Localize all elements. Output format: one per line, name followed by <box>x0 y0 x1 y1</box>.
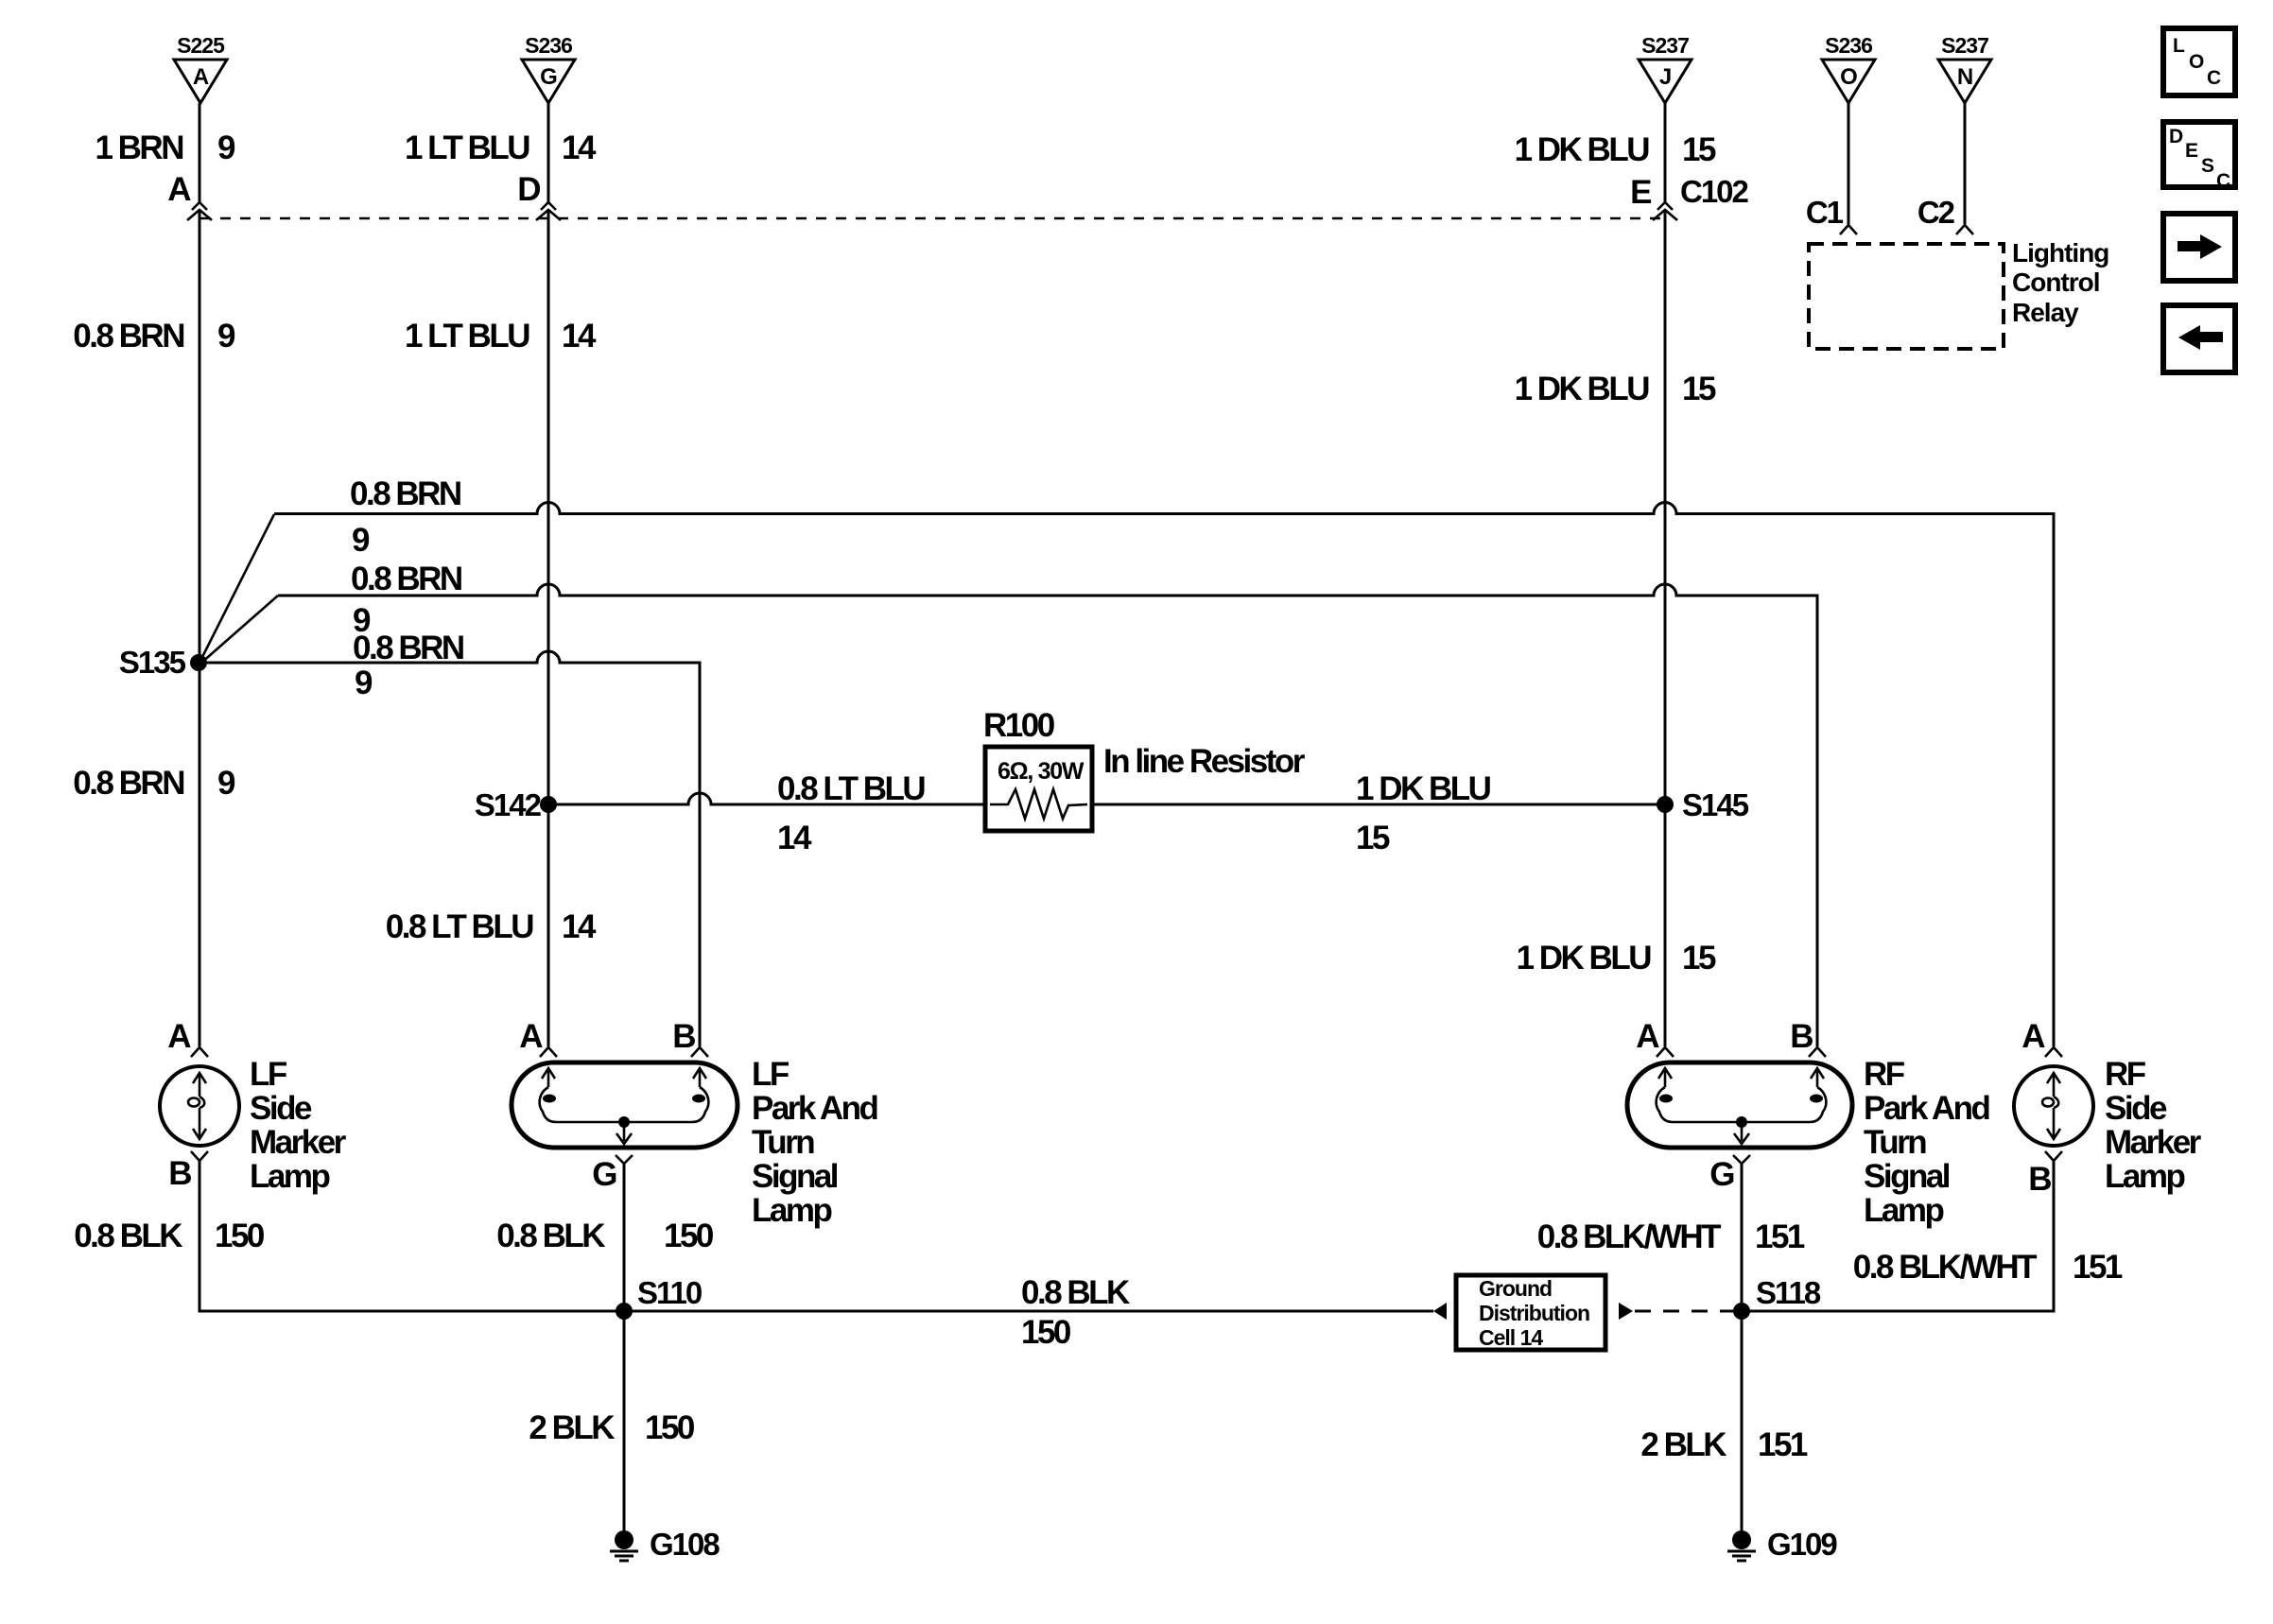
left filament <box>1664 1071 1667 1087</box>
pin B terminal fork <box>191 1151 208 1161</box>
svg-text:Marker: Marker <box>250 1124 347 1161</box>
right filament <box>699 1071 702 1087</box>
svg-text:0.8 BRN: 0.8 BRN <box>350 475 460 512</box>
pin B terminal fork <box>1809 1047 1826 1057</box>
svg-text:1 LT BLU: 1 LT BLU <box>405 130 529 166</box>
pin G terminal fork <box>1733 1155 1750 1164</box>
svg-text:G109: G109 <box>1767 1527 1837 1562</box>
svg-text:15: 15 <box>1356 820 1390 856</box>
svg-text:Ground: Ground <box>1479 1276 1552 1301</box>
C1 terminal fork <box>1840 225 1857 234</box>
wire S118 to RF side marker B <box>1742 1161 2054 1311</box>
svg-text:Side: Side <box>250 1090 312 1127</box>
svg-text:6Ω, 30W: 6Ω, 30W <box>998 758 1084 785</box>
svg-text:S118: S118 <box>1756 1275 1821 1310</box>
pin A terminal fork <box>1657 1047 1674 1057</box>
common junction and ground arrow <box>1736 1116 1747 1128</box>
svg-text:S236: S236 <box>1825 33 1872 58</box>
svg-text:150: 150 <box>664 1218 714 1254</box>
connector E at C102 line <box>1657 202 1673 210</box>
ground G108 <box>610 1527 720 1562</box>
svg-text:15: 15 <box>1682 940 1716 976</box>
wire S142 to R100 (0.8 LT BLU 14) with hop over branch-3 drop <box>548 793 985 804</box>
svg-text:151: 151 <box>2073 1249 2123 1286</box>
C2 terminal fork <box>1956 225 1973 234</box>
svg-text:Control: Control <box>2012 268 2100 297</box>
svg-text:C: C <box>2207 67 2221 89</box>
svg-text:2 BLK: 2 BLK <box>1640 1426 1726 1463</box>
svg-text:1 BRN: 1 BRN <box>95 130 182 166</box>
svg-text:Marker: Marker <box>2105 1124 2202 1161</box>
svg-text:S145: S145 <box>1682 787 1749 822</box>
bulb circle <box>2014 1066 2093 1146</box>
svg-text:LF: LF <box>250 1056 287 1093</box>
wire R100 to S145 (1 DK BLU 15) <box>1092 803 1665 806</box>
svg-text:Turn: Turn <box>1864 1124 1926 1161</box>
svg-text:Lamp: Lamp <box>1864 1192 1943 1229</box>
svg-text:0.8 LT BLU: 0.8 LT BLU <box>386 908 533 945</box>
pin G terminal fork <box>616 1155 633 1164</box>
legend forward arrow box <box>2163 214 2235 281</box>
svg-text:15: 15 <box>1682 371 1716 407</box>
svg-text:9: 9 <box>217 318 235 354</box>
svg-text:B: B <box>2028 1161 2051 1198</box>
svg-text:A: A <box>193 64 209 90</box>
svg-text:1 DK BLU: 1 DK BLU <box>1356 770 1491 807</box>
connector A at C102 line (chevron + arrow) <box>192 202 207 210</box>
svg-text:R100: R100 <box>983 707 1055 744</box>
svg-text:0.8 BLK: 0.8 BLK <box>1021 1274 1130 1311</box>
resistor R100 In line Resistor <box>983 707 1306 831</box>
svg-text:1 DK BLU: 1 DK BLU <box>1515 371 1650 407</box>
svg-text:J: J <box>1659 64 1671 90</box>
pin A terminal fork <box>2045 1047 2062 1057</box>
pin B terminal fork <box>2045 1151 2062 1161</box>
svg-text:1 LT BLU: 1 LT BLU <box>405 318 529 354</box>
right filament <box>1816 1071 1819 1087</box>
left filament <box>547 1071 550 1087</box>
relay K: Lighting Control Relay dashed box <box>1809 244 2004 349</box>
dashed wire ground distribution to S118 <box>1635 1310 1736 1313</box>
svg-text:Lamp: Lamp <box>2105 1158 2184 1195</box>
svg-text:E: E <box>2185 140 2198 162</box>
svg-text:1 DK BLU: 1 DK BLU <box>1515 131 1650 168</box>
svg-text:9: 9 <box>217 765 235 802</box>
splice S135 node <box>190 654 207 671</box>
lamp E1: LF Side Marker Lamp <box>160 1018 347 1195</box>
wire O to relay pin C1 <box>1848 103 1850 224</box>
common junction and ground arrow <box>618 1116 630 1128</box>
svg-text:B: B <box>672 1018 695 1055</box>
wire below connector D down to LF park lamp pin A <box>547 210 550 1046</box>
svg-text:Park And: Park And <box>752 1090 877 1127</box>
svg-text:9: 9 <box>355 665 373 701</box>
svg-text:0.8 LT BLU: 0.8 LT BLU <box>777 770 925 807</box>
svg-text:Cell 14: Cell 14 <box>1479 1325 1543 1350</box>
svg-text:14: 14 <box>562 908 597 945</box>
lamp E2: LF Park And Turn Signal Lamp <box>512 1018 877 1229</box>
svg-text:N: N <box>1957 64 1972 90</box>
wire below connector E down to RF park lamp pin A <box>1664 210 1667 1046</box>
svg-text:LF: LF <box>752 1056 789 1093</box>
svg-text:S236: S236 <box>525 33 572 58</box>
svg-text:0.8 BLK: 0.8 BLK <box>74 1218 182 1254</box>
svg-text:G108: G108 <box>650 1527 720 1562</box>
svg-text:2 BLK: 2 BLK <box>529 1409 615 1446</box>
svg-text:S135: S135 <box>119 645 186 680</box>
splice triangle S237 (J) <box>1639 33 1692 103</box>
svg-text:O: O <box>2189 51 2204 73</box>
svg-text:0.8 BRN: 0.8 BRN <box>73 318 183 354</box>
svg-text:S237: S237 <box>1641 33 1689 58</box>
svg-text:A: A <box>167 171 191 208</box>
pin B terminal fork <box>691 1047 708 1057</box>
splice triangle S236 (O) <box>1822 33 1875 103</box>
svg-text:C: C <box>2216 170 2230 192</box>
bulb circle <box>160 1066 239 1146</box>
off-page arrow into ground distribution <box>1433 1303 1447 1320</box>
svg-text:Relay: Relay <box>2012 298 2079 327</box>
legend DESC box <box>2163 122 2235 192</box>
svg-text:L: L <box>2173 35 2185 57</box>
svg-text:Park And: Park And <box>1864 1090 1989 1127</box>
svg-text:S110: S110 <box>637 1275 702 1310</box>
wire S225 to connector A <box>199 103 201 202</box>
svg-text:150: 150 <box>1021 1314 1071 1351</box>
svg-text:Lamp: Lamp <box>250 1158 329 1195</box>
svg-text:D: D <box>2169 126 2183 147</box>
svg-text:Distribution: Distribution <box>1479 1301 1589 1325</box>
wire below connector A down to LF side marker <box>199 210 201 1046</box>
svg-text:In line Resistor: In line Resistor <box>1103 743 1306 780</box>
ground G109 <box>1727 1527 1837 1562</box>
svg-text:C2: C2 <box>1917 195 1955 230</box>
svg-text:14: 14 <box>777 820 812 856</box>
svg-text:RF: RF <box>2105 1056 2146 1093</box>
filament symbol <box>2053 1074 2056 1097</box>
wire branch 2 from S135 to RF park lamp pin B <box>200 596 278 664</box>
svg-text:151: 151 <box>1758 1426 1808 1463</box>
filament symbol <box>199 1074 201 1097</box>
wire LF side marker B down and along ground bus to S110 <box>200 1161 624 1311</box>
svg-text:Lighting: Lighting <box>2012 238 2108 268</box>
off-page arrow out of ground distribution <box>1619 1303 1633 1320</box>
svg-text:0.8 BRN: 0.8 BRN <box>353 630 463 666</box>
svg-text:S: S <box>2201 155 2214 177</box>
splice triangle S225 (A) <box>174 33 227 103</box>
svg-text:S142: S142 <box>475 787 542 822</box>
svg-text:0.8 BLK/WHT: 0.8 BLK/WHT <box>1853 1249 2037 1286</box>
wire S237 to connector E <box>1664 103 1667 202</box>
svg-text:E: E <box>1630 174 1651 211</box>
wire S110 down to G108 <box>623 1311 626 1532</box>
wire S118 down to G109 <box>1741 1311 1744 1532</box>
lamp E4: RF Side Marker Lamp <box>2014 1018 2202 1198</box>
svg-text:B: B <box>1790 1018 1813 1055</box>
svg-text:B: B <box>168 1155 191 1192</box>
svg-text:A: A <box>167 1018 191 1055</box>
lamp body stadium <box>1627 1063 1852 1148</box>
svg-text:G: G <box>1709 1156 1734 1193</box>
pin A terminal fork <box>540 1047 557 1057</box>
wire branch 3 from S135 to LF park lamp pin B <box>207 651 700 1046</box>
svg-text:15: 15 <box>1682 131 1716 168</box>
svg-text:1 DK BLU: 1 DK BLU <box>1517 940 1652 976</box>
svg-text:151: 151 <box>1755 1218 1805 1255</box>
svg-text:Lamp: Lamp <box>752 1192 831 1229</box>
svg-text:C1: C1 <box>1806 195 1844 230</box>
connector D at C102 line <box>541 202 556 210</box>
svg-text:Signal: Signal <box>1864 1158 1950 1195</box>
splice S110 node <box>616 1303 633 1320</box>
wire RF park G down to S118 <box>1741 1164 1744 1311</box>
svg-text:9: 9 <box>352 522 370 559</box>
splice triangle S237 (N) <box>1938 33 1991 103</box>
legend LOC box <box>2163 28 2235 95</box>
wire S110 to ground distribution (0.8 BLK 150) <box>624 1310 1433 1313</box>
svg-text:9: 9 <box>217 130 235 166</box>
svg-text:C102: C102 <box>1680 174 1749 209</box>
legend back arrow box <box>2163 305 2235 372</box>
svg-text:O: O <box>1840 64 1857 90</box>
splice S145 node <box>1657 796 1674 813</box>
svg-text:150: 150 <box>215 1218 265 1254</box>
lamp E3: RF Park And Turn Signal Lamp <box>1627 1018 1989 1229</box>
lamp body stadium <box>512 1063 737 1148</box>
svg-text:A: A <box>1636 1018 1659 1055</box>
wire N to relay pin C2 <box>1964 103 1967 224</box>
svg-text:D: D <box>517 171 540 208</box>
splice S118 node <box>1733 1303 1750 1320</box>
svg-text:14: 14 <box>562 130 597 166</box>
svg-text:Signal: Signal <box>752 1158 838 1195</box>
wire LF park G down to S110 <box>623 1164 626 1311</box>
wire branch 1 from S135 (0.8 BRN 9) diagonal and horizontal to RF side marker <box>200 514 274 661</box>
svg-text:0.8 BLK/WHT: 0.8 BLK/WHT <box>1537 1218 1721 1255</box>
svg-text:0.8 BRN: 0.8 BRN <box>351 561 461 597</box>
svg-text:RF: RF <box>1864 1056 1905 1093</box>
splice S142 node <box>540 796 557 813</box>
svg-text:0.8 BRN: 0.8 BRN <box>73 765 183 802</box>
pin A terminal fork <box>191 1047 208 1057</box>
svg-text:A: A <box>2021 1018 2045 1055</box>
svg-text:S225: S225 <box>177 33 225 58</box>
svg-text:A: A <box>519 1018 543 1055</box>
svg-text:G: G <box>540 64 557 90</box>
Ground Distribution Cell 14 box <box>1456 1275 1605 1350</box>
wire S236 to connector D <box>547 103 550 202</box>
svg-text:S237: S237 <box>1941 33 1988 58</box>
svg-text:G: G <box>592 1156 616 1193</box>
svg-text:Turn: Turn <box>752 1124 814 1161</box>
splice triangle S236 (G) <box>522 33 575 103</box>
svg-text:0.8 BLK: 0.8 BLK <box>496 1218 605 1254</box>
connector C102 dashed line <box>200 217 1661 220</box>
svg-text:Side: Side <box>2105 1090 2167 1127</box>
svg-text:150: 150 <box>645 1409 695 1446</box>
svg-text:14: 14 <box>562 318 597 354</box>
